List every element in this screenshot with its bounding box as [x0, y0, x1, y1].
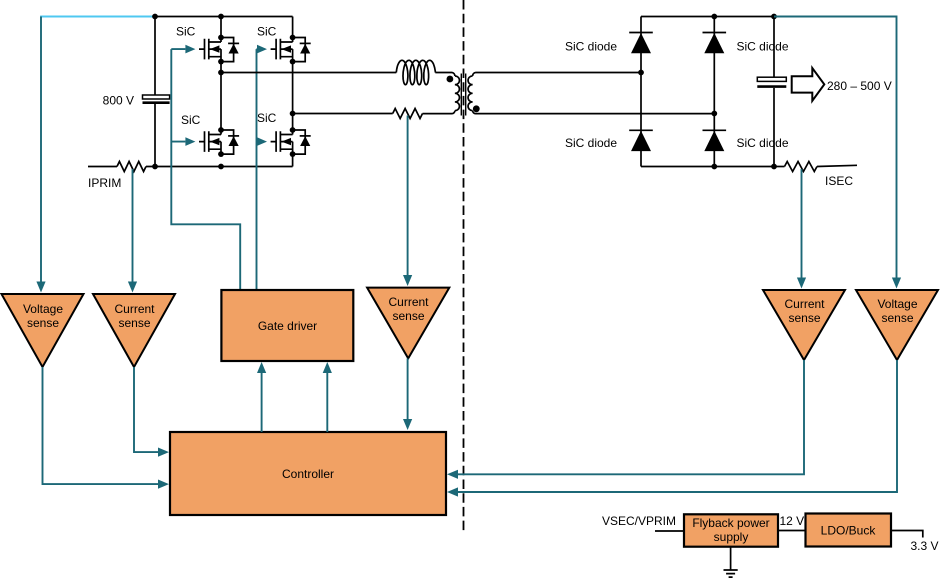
- transistor Q4 SiC MOSFET bottom-right: [271, 127, 311, 157]
- svg-text:IPRIM: IPRIM: [88, 176, 121, 190]
- wire teal left voltage-sense drop: [40, 17, 42, 285]
- arrowhead into gate driver 2: [323, 362, 332, 373]
- arrowhead gate Q4: [257, 137, 267, 146]
- node top rail left leg junction: [218, 14, 224, 20]
- block Gate driver: [221, 290, 353, 361]
- svg-text:supply: supply: [714, 530, 749, 544]
- svg-text:Voltage: Voltage: [23, 302, 63, 316]
- wire teal primary current sense tap: [407, 116, 409, 277]
- svg-text:sense: sense: [118, 316, 150, 330]
- svg-text:SiC: SiC: [181, 113, 201, 127]
- block Current sense right triangle: [763, 290, 845, 360]
- diode D2 SiC top-right: [703, 33, 727, 54]
- arrowhead into Voltage sense left: [36, 282, 45, 293]
- arrowhead into Voltage sense right: [892, 278, 901, 289]
- svg-text:sense: sense: [881, 311, 913, 325]
- transformer T1 secondary winding: [468, 76, 473, 111]
- wire flyback to LDO: [778, 530, 806, 532]
- arrowhead into Current sense left: [128, 282, 137, 293]
- wire ISEC lead: [774, 166, 785, 168]
- node top rail cap junction secondary: [771, 14, 777, 20]
- wire phase A to inductor: [221, 72, 396, 74]
- diode D3 SiC bottom-left: [629, 130, 653, 151]
- node polarity dot primary: [447, 76, 454, 83]
- block Voltage sense left triangle: [2, 294, 84, 367]
- ground flyback: [730, 547, 732, 570]
- svg-text:LDO/Buck: LDO/Buck: [821, 524, 877, 538]
- node bottom rail left leg junction: [218, 164, 224, 170]
- block LDO/Buck: [806, 514, 892, 547]
- wire secondary top to bridge: [473, 73, 641, 77]
- svg-text:VSEC/VPRIM: VSEC/VPRIM: [602, 514, 676, 528]
- block Controller: [170, 432, 446, 515]
- node polarity dot secondary: [473, 105, 480, 112]
- svg-text:Controller: Controller: [282, 467, 334, 481]
- block Current sense mid triangle: [367, 288, 449, 359]
- svg-text:Gate driver: Gate driver: [258, 319, 317, 333]
- wire secondary bottom to bridge: [473, 111, 715, 114]
- wire teal secondary voltage sense feed: [774, 17, 897, 282]
- arrowhead into controller left 2: [158, 480, 169, 489]
- wire phase B to resistor: [293, 113, 393, 115]
- wire ISEC tail: [817, 165, 857, 166]
- node bottom rail cap junction: [152, 164, 158, 170]
- svg-text:Current: Current: [784, 297, 825, 311]
- svg-text:Flyback power: Flyback power: [692, 516, 769, 530]
- svg-text:Current: Current: [114, 302, 155, 316]
- arrowhead into controller top: [403, 419, 412, 430]
- arrowhead gate Q2: [185, 137, 195, 146]
- svg-text:SiC: SiC: [176, 25, 196, 39]
- svg-text:SiC diode: SiC diode: [565, 136, 617, 150]
- wire teal current sense mid to controller: [407, 358, 409, 422]
- wire teal gate drive right pair: [256, 49, 259, 290]
- arrowhead gate Q3: [257, 45, 267, 54]
- node secondary phase bottom junction: [711, 111, 717, 117]
- node bottom rail cap junction secondary: [771, 164, 777, 170]
- wire teal gate drive left pair: [171, 49, 240, 290]
- svg-text:SiC diode: SiC diode: [737, 40, 789, 54]
- svg-text:800 V: 800 V: [103, 94, 134, 108]
- svg-text:Voltage: Voltage: [877, 297, 917, 311]
- svg-text:sense: sense: [788, 311, 820, 325]
- arrowhead into controller right 2: [447, 487, 458, 496]
- node secondary phase top junction: [638, 70, 644, 76]
- transformer T1 primary winding: [455, 76, 460, 111]
- resistor IPRIM shunt: [117, 162, 146, 172]
- svg-text:3.3 V: 3.3 V: [911, 539, 939, 553]
- wire teal controller to gate driver 1: [261, 371, 263, 432]
- wire secondary top rail: [641, 16, 774, 18]
- node top rail cap junction: [152, 14, 158, 20]
- inductor Lr: [396, 60, 435, 84]
- svg-text:12 V: 12 V: [780, 514, 805, 528]
- wire left bridge leg: [221, 17, 293, 131]
- arrowhead into controller right 1: [447, 470, 458, 479]
- wire bottom rail primary: [146, 154, 293, 166]
- arrowhead into Current sense right: [797, 278, 806, 289]
- wire teal controller to gate driver 2: [326, 371, 328, 432]
- capacitor C1 800 V bus: [154, 17, 156, 96]
- transformer T1 core: [461, 74, 465, 116]
- svg-text:Current: Current: [388, 295, 429, 309]
- node top rail right leg junction: [711, 14, 717, 20]
- svg-text:SiC diode: SiC diode: [737, 136, 789, 150]
- wire teal voltage sense right to controller: [456, 360, 897, 492]
- svg-text:SiC: SiC: [257, 25, 277, 39]
- wire VSEC input: [655, 530, 684, 532]
- block Flyback power supply: [684, 514, 778, 546]
- wire teal current sense right to controller: [456, 360, 804, 474]
- wire inductor to transformer: [435, 73, 455, 77]
- svg-text:280 – 500 V: 280 – 500 V: [827, 79, 892, 93]
- wire resistor to transformer: [423, 111, 455, 114]
- wire cyan top-left feed: [40, 16, 155, 18]
- wire primary top rail: [155, 16, 293, 18]
- wire teal current sense left to controller: [134, 367, 160, 452]
- svg-text:ISEC: ISEC: [825, 174, 853, 188]
- wire teal voltage sense left to controller: [43, 367, 161, 484]
- svg-text:sense: sense: [392, 309, 424, 323]
- capacitor C2 output: [773, 17, 775, 78]
- svg-text:sense: sense: [27, 316, 59, 330]
- svg-text:SiC diode: SiC diode: [565, 40, 617, 54]
- transistor Q2 SiC MOSFET bottom-left: [199, 127, 239, 157]
- wire teal ISEC current sense tap: [801, 169, 803, 281]
- block Current sense left triangle: [93, 294, 175, 367]
- node phase B junction: [290, 111, 296, 117]
- transistor Q1 SiC MOSFET top-left: [199, 35, 239, 65]
- dashed isolation boundary: [463, 0, 465, 532]
- wire LDO output: [891, 531, 923, 538]
- arrowhead into Current sense mid: [403, 275, 412, 286]
- wire teal IPRIM current sense tap: [132, 169, 134, 284]
- svg-text:SiC: SiC: [257, 111, 277, 125]
- wire IPRIM lead: [88, 166, 117, 168]
- block Voltage sense right triangle: [856, 290, 938, 360]
- arrowhead into gate driver 1: [257, 362, 266, 373]
- arrowhead gate Q1: [185, 45, 195, 54]
- resistor primary sense: [393, 109, 423, 119]
- diode D4 SiC bottom-right: [703, 130, 727, 151]
- block arrow output voltage: [792, 68, 825, 101]
- resistor ISEC shunt: [785, 162, 817, 172]
- arrowhead into controller left 1: [158, 448, 169, 457]
- wire left diode leg: [640, 17, 642, 167]
- transistor Q3 SiC MOSFET top-right: [271, 35, 311, 65]
- diode D1 SiC top-left: [629, 33, 653, 54]
- wire right diode leg: [713, 17, 715, 167]
- node phase A junction: [218, 70, 224, 76]
- node bottom rail right leg junction: [711, 164, 717, 170]
- wire secondary bottom rail: [641, 166, 774, 168]
